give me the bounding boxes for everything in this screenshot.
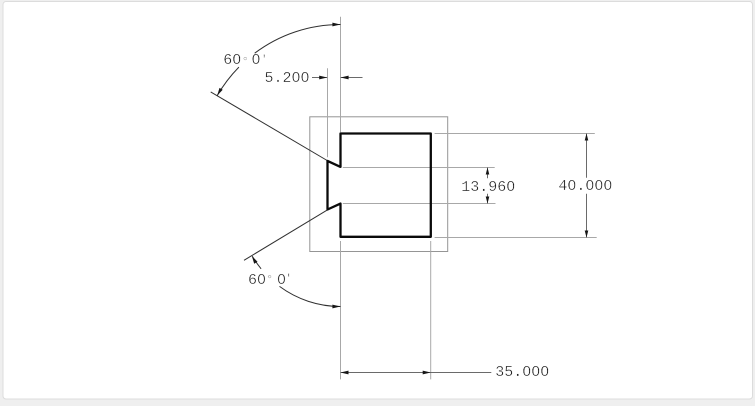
masks to hide Liberation Mono dotted-zero dots xyxy=(294,75,297,78)
extension line from part top edge, horizontal xyxy=(435,133,595,135)
top angular dimension arc, left segment xyxy=(217,67,239,96)
bottom angular dimension arc, right segment xyxy=(280,286,341,306)
arrowhead, dimension 5.200 left xyxy=(319,76,327,80)
dimension 13.960 upper stub xyxy=(487,168,489,179)
extension line from part top-left corner, vertical xyxy=(340,17,342,133)
arrowhead, dimension 40.000 upper xyxy=(585,134,589,141)
label t60a-min xyxy=(261,56,267,66)
dimension 35.000 line xyxy=(341,372,492,374)
arrowhead, bottom angular dimension at vertical extension line xyxy=(332,305,340,309)
dimension 5.200 right arrow tail xyxy=(341,77,363,79)
label t60b-min xyxy=(286,275,292,285)
label t60b-0 xyxy=(277,273,286,288)
extension line from dovetail bottom base corner xyxy=(343,203,496,205)
part outline (dovetail tab on square block) xyxy=(328,134,431,237)
stock outline thin rectangle xyxy=(310,117,448,252)
arrowhead, dimension 13.960 upper xyxy=(486,168,490,175)
arrowhead, dimension 13.960 lower xyxy=(486,197,490,204)
dimension 40.000 upper segment xyxy=(586,134,588,178)
arrowhead, dimension 40.000 lower xyxy=(585,231,589,238)
label t60a-deg xyxy=(242,56,249,68)
extension line from dovetail face, vertical xyxy=(327,68,329,157)
dimension 5.200 left arrow tail xyxy=(312,77,327,79)
extension line from part bottom edge, horizontal xyxy=(435,237,597,239)
label t60b-deg xyxy=(266,274,273,286)
arrowhead, dimension 35.000 left xyxy=(341,371,349,375)
label t5200 xyxy=(265,71,310,86)
extension line from dovetail top base corner xyxy=(343,167,495,169)
arrowhead, top angular dimension at vertical extension line xyxy=(332,23,340,27)
dimension 40.000 lower segment xyxy=(586,194,588,238)
extension line from part bottom-right corner, vertical xyxy=(430,241,432,379)
extension line from part bottom-left corner, vertical xyxy=(340,241,342,379)
top 60-degree construction diagonal xyxy=(211,92,328,161)
label t13960 xyxy=(461,180,515,195)
top angular dimension arc, right segment xyxy=(255,24,341,53)
bottom angular dimension arc, left segment xyxy=(252,256,261,269)
angular dimension arcs and construction diagonals xyxy=(211,24,341,306)
dimension lines xyxy=(312,78,587,373)
label t60a-60 xyxy=(223,53,241,68)
extension lines xyxy=(328,17,597,380)
bottom 60-degree construction diagonal xyxy=(244,210,328,261)
label t60a-0 xyxy=(252,53,261,68)
arrowhead, dimension 35.000 right xyxy=(423,371,431,375)
dimension 13.960 lower stub xyxy=(487,194,489,204)
arrowhead, bottom angular dimension at diagonal xyxy=(252,256,258,264)
label t35000 xyxy=(495,365,549,380)
label t40000 xyxy=(558,179,612,194)
label t60b-60 xyxy=(248,273,266,288)
arrowhead, top angular dimension at diagonal xyxy=(217,88,223,96)
arrowhead, dimension 5.200 right xyxy=(341,76,349,80)
